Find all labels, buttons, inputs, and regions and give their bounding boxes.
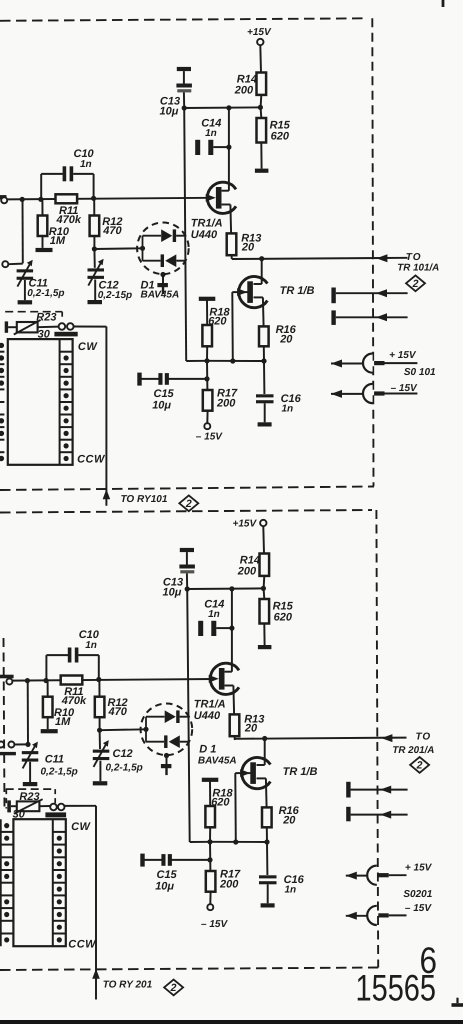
wire: TR1/B drain down (module 2) [264, 739, 266, 766]
svg-text:620: 620 [271, 130, 290, 142]
interconnect diamond 2 (to TR201/A) (module 2) [410, 757, 429, 773]
node: C13 / gate line junction (module 1) [182, 105, 187, 110]
wire: C15 right lead (module 1) [168, 378, 207, 380]
arrowhead: contact 2 (module 1) [376, 313, 387, 321]
trimmer capacitor C12 (module 1) [88, 268, 105, 271]
wire: R12 top lead (module 2) [98, 681, 100, 697]
wire: TR1/A source lead (module 1) [222, 204, 231, 206]
wire: R23 right lead (module 2) [39, 805, 50, 807]
wire: drain line down (module 1) [228, 108, 230, 191]
wire: D1 centre tap down (module 2) [166, 756, 168, 765]
wire: R13 bottom lead (module 2) [234, 736, 236, 740]
wire: R10 bottom lead (module 1) [42, 236, 44, 248]
resistor R12 (module 2) [95, 697, 105, 718]
preset resistor R23 body (module 1) [17, 322, 38, 332]
wire: R18 top lead (module 2) [209, 782, 211, 807]
terminal: input connection bar (module 1) [0, 195, 7, 199]
wire: contact 2 line (module 2) [351, 814, 408, 816]
svg-text:R23: R23 [36, 312, 56, 324]
wire: TR1/B gate lead (module 1) [232, 291, 247, 293]
wire: R14 to node (module 1) [260, 95, 263, 108]
svg-text:200: 200 [237, 565, 257, 577]
wire: C13 to node (module 1) [183, 92, 185, 108]
svg-text:– 15V: – 15V [196, 431, 223, 442]
svg-text:620: 620 [211, 797, 230, 809]
capacitor C10 plates (module 2) [68, 648, 72, 663]
wire: +15V pin line (module 2) [389, 874, 407, 876]
wire: C15 left lead (module 2) [144, 859, 162, 861]
node: C11 branch on gate bus (module 2) [25, 678, 30, 683]
ground below R10 (module 2) [41, 729, 58, 733]
node: D1 left junction (module 1) [140, 246, 145, 251]
wire: R16 node down to C16 (module 2) [266, 842, 268, 875]
arrowhead: -15V plug (module 2) [346, 912, 357, 920]
wire: +15V to R14 (module 1) [259, 45, 262, 72]
svg-text:TO RY101: TO RY101 [121, 494, 168, 505]
terminal: C11 tap circle (module 1) [2, 261, 8, 267]
svg-text:200: 200 [216, 397, 236, 409]
wire: D1 bottom anode lead (module 1) [176, 260, 186, 262]
transistor TR1/B JFET (module 2) [242, 757, 271, 788]
capacitor C16 plates (module 1) [256, 394, 274, 397]
ground below D1 (module 1) [157, 283, 168, 287]
diode D1 lower half (points left) (module 2) [164, 735, 167, 748]
terminal: R23 wiper circle B (module 2) [58, 804, 65, 811]
svg-text:1n: 1n [85, 640, 97, 651]
connector socket +15V (module 1) [363, 354, 373, 373]
wire: C13-D1 vertical line (module 2) [187, 589, 190, 842]
resistor R17 (module 1) [203, 390, 213, 411]
ground below R15 (module 2) [258, 645, 272, 649]
node: D1 centre tap (module 2) [164, 753, 169, 758]
dashed border: module 1 right edge [372, 18, 373, 486]
node: C10 left / R10 (module 2) [43, 678, 48, 683]
node: C14 to drain line (module 1) [226, 145, 231, 150]
capacitor C13 top plate (module 2) [180, 548, 194, 552]
diode D1 dashed envelope circle (module 1) [137, 223, 189, 275]
wire: R23 left lead (module 2) [11, 805, 17, 807]
diode D1 lower half (points left) (module 1) [161, 254, 164, 267]
wire: output line to TO TR201/A (module 2) [235, 738, 407, 739]
wire: R13 bottom lead (module 1) [231, 255, 233, 259]
terminal: input connection bar (module 2) [0, 675, 14, 679]
node: TR1/A drain tap (module 1) [226, 105, 231, 110]
trimmer capacitor C12 (module 2) [93, 750, 110, 753]
node: R14 / R15 junction (module 2) [261, 586, 266, 591]
wire: TR1/B source down to R16 (module 1) [262, 297, 265, 326]
wire: C10 left lead across (module 1) [41, 173, 63, 175]
svg-text:20: 20 [241, 241, 255, 253]
node: D1 centre tap (module 1) [160, 272, 165, 277]
wire: TR1/A drain lead (module 1) [222, 190, 229, 192]
svg-text:0,2-1,5p: 0,2-1,5p [27, 288, 64, 299]
node: R12 top on gate bus (module 2) [96, 677, 101, 682]
svg-text:+ 15V: + 15V [389, 350, 417, 361]
wire: -15V pin line (module 2) [389, 914, 407, 916]
wire: C11 tap lead (module 2) [14, 743, 28, 745]
node: C15 / R17 tap (module 1) [204, 376, 209, 381]
svg-text:CCW: CCW [68, 939, 97, 951]
svg-text:S0201: S0201 [403, 889, 432, 900]
svg-text:2: 2 [416, 760, 423, 772]
pin pads left column (module 2) [0, 819, 2, 946]
wire: C12 to ground (module 2) [99, 761, 101, 782]
wire: TR1/A source lead (module 2) [225, 685, 234, 687]
capacitor C14 plates (module 2) [198, 621, 203, 636]
terminal: R23 wiper circle A (module 1) [59, 323, 66, 330]
arrowhead: contact 2 (module 2) [380, 811, 391, 819]
node: TR1/B gate tap (module 2) [233, 839, 238, 844]
svg-text:1M: 1M [50, 235, 66, 247]
svg-text:620: 620 [208, 316, 227, 328]
svg-text:20: 20 [279, 333, 293, 345]
svg-text:200: 200 [234, 84, 254, 96]
capacitor C13 second plate (module 1) [176, 84, 192, 88]
wire: R10 top lead (module 1) [41, 199, 43, 215]
partial ground symbol right edge [456, 998, 458, 1004]
arrowhead: +15V plug (module 1) [331, 360, 342, 368]
svg-text:0,2-1,5p: 0,2-1,5p [41, 767, 78, 778]
terminal: R23 wiper circle B (module 1) [67, 323, 74, 330]
svg-text:470: 470 [108, 706, 128, 718]
wire: C10 left lead up (module 2) [45, 655, 47, 681]
wire: R16 node down to C16 (module 1) [263, 361, 265, 394]
node: TR1/B drain tap on output line (module 1) [259, 256, 264, 261]
svg-text:1n: 1n [205, 128, 217, 139]
resistor R16 (module 1) [259, 326, 269, 346]
wire: feedback node line (module 2) [210, 841, 267, 843]
wire: wiper to RY line across (module 1) [74, 326, 107, 328]
terminal: +15V circle (module 1) [257, 39, 263, 45]
resistor R14 (module 2) [260, 554, 270, 576]
arrowhead: output to TR201/A (module 2) [381, 734, 392, 742]
svg-text:C11: C11 [45, 753, 64, 765]
wire: C11 branch down (module 1) [22, 199, 24, 263]
wire: +15V plug line (module 2) [346, 875, 367, 877]
dashed border: module 2 right edge [376, 510, 378, 968]
node: R16 tap (module 1) [261, 358, 266, 363]
dashed outline around R23 right (module 2) [54, 789, 56, 804]
wire: C10 right lead down (module 2) [98, 655, 100, 680]
svg-text:S0 101: S0 101 [404, 367, 436, 378]
node: TR1/B gate tap (module 1) [230, 358, 235, 363]
wire: C14 right lead (module 2) [216, 627, 232, 629]
node: C11 branch on gate bus (module 1) [20, 197, 25, 202]
resistor R13 (module 2) [230, 714, 240, 736]
arrowhead: output to TR101/A (module 1) [376, 254, 387, 262]
capacitor C14 plates (module 1) [195, 140, 200, 155]
wire: C12 branch down (module 2) [99, 730, 101, 749]
wire: TR1/B source lead (module 1) [254, 296, 263, 298]
svg-text:620: 620 [274, 611, 293, 623]
wire: +15V pin line (module 1) [385, 362, 418, 364]
node: TR1/B drain tap on output line (module 2) [262, 736, 267, 741]
terminal: input circle (module 1) [1, 197, 7, 203]
connector pin -15V (module 1) [374, 391, 384, 395]
wire: TR1/A source down to R13 (module 2) [232, 686, 235, 715]
connector pin +15V (module 2) [378, 873, 388, 877]
svg-text:D 1: D 1 [199, 744, 216, 756]
wire: R12 bottom lead (module 2) [99, 717, 101, 730]
wire: C13-D1 vertical line (module 1) [184, 108, 186, 361]
wire: D1 top cathode lead (module 2) [180, 716, 190, 718]
wire: R14 to node (module 2) [263, 576, 266, 589]
wire: -15V pin line (module 1) [385, 393, 418, 395]
svg-text:0,2-15p: 0,2-15p [98, 290, 132, 301]
wire: C11 tap lead (module 1) [8, 263, 22, 266]
wire: TR1/A drain lead (module 2) [225, 671, 232, 673]
svg-text:CCW: CCW [77, 453, 106, 465]
connector pin -15V (module 2) [378, 913, 388, 917]
node: R18/R17 tap (module 1) [204, 358, 209, 363]
pin pads right column (module 2) [52, 819, 54, 946]
capacitor C13 top plate (module 1) [177, 67, 191, 71]
resistor R12 (module 1) [90, 216, 100, 237]
contact pin bar 2 (module 2) [346, 807, 350, 822]
capacitor C13 third plate (module 2) [180, 570, 194, 573]
svg-text:1n: 1n [285, 885, 297, 896]
capacitor C13 second plate (module 2) [179, 565, 195, 569]
wire: R10 bottom lead (module 2) [47, 717, 49, 729]
arrowhead: to RY 201 (module 2) [92, 969, 100, 979]
wire: D1 top cathode lead (module 1) [176, 235, 186, 237]
wire: D1 top anode lead (module 2) [146, 716, 165, 718]
wire: top rail C13 to R14 (module 2) [187, 587, 263, 590]
capacitor C15 plates (module 2) [161, 854, 165, 866]
dashed border: page frame tick top right [442, 0, 445, 7]
svg-text:BAV45A: BAV45A [141, 290, 180, 301]
wire: wiper to RY line across (module 2) [65, 805, 97, 807]
capacitor C10 plates (module 1) [63, 166, 67, 181]
svg-text:1n: 1n [80, 159, 92, 170]
interconnect diamond 2 (to RY201) (module 2) [164, 980, 183, 996]
wire: contact 1 line (module 2) [351, 789, 408, 791]
wire: D1 ground stub (module 1) [162, 287, 164, 294]
ground below C12 (module 1) [88, 300, 103, 304]
svg-text:CW: CW [78, 341, 98, 353]
wire: C11 to ground (module 2) [29, 762, 31, 782]
node: R12 / C12 / D1 junction (module 2) [97, 728, 102, 733]
wire: C13 internal stem (module 1) [183, 71, 185, 83]
wire: D1 centre tap down (module 1) [162, 275, 164, 284]
node: R12 / C12 / D1 junction (module 1) [92, 246, 97, 251]
wire: TR1/B gate down (module 2) [234, 773, 237, 842]
node: TR1/A drain tap (module 2) [229, 586, 234, 591]
pin pads left column (module 1) [0, 351, 4, 353]
interconnect diamond 2 (to TR101/A) (module 1) [406, 275, 425, 291]
wire: R15 to ground (module 1) [260, 143, 262, 169]
wire: node line down to R17 (module 1) [206, 361, 208, 390]
wire: -15V plug line (module 1) [331, 393, 363, 395]
svg-text:C15: C15 [154, 388, 175, 400]
svg-text:C15: C15 [157, 869, 178, 881]
contact pin bar 2 (module 1) [331, 310, 335, 325]
svg-text:10μ: 10μ [163, 586, 182, 598]
wire: C10 right lead across (module 2) [78, 654, 98, 656]
scan edge black band bottom [0, 1020, 463, 1024]
dashed border: module 2 top edge [0, 510, 372, 513]
ground above R18 (module 1) [199, 297, 216, 301]
resistor R10 (module 1) [38, 216, 48, 237]
svg-text:– 15V: – 15V [405, 903, 432, 914]
wire: C11 branch down (module 2) [27, 681, 29, 745]
svg-text:1n: 1n [282, 404, 294, 415]
wire: top rail C13 to R14 (module 1) [184, 106, 260, 109]
svg-text:470: 470 [102, 225, 122, 237]
resistor R10 (module 2) [43, 697, 53, 718]
wire: line down to RY 201 (module 2) [95, 806, 97, 1000]
arrowhead: contact 1 (module 1) [376, 289, 387, 297]
svg-text:20: 20 [282, 814, 296, 826]
svg-text:C12: C12 [113, 748, 133, 760]
wire: +15V to R14 (module 2) [262, 526, 265, 553]
wire: R12 bottom lead (module 1) [93, 236, 95, 249]
wiper common bar (module 1) [54, 332, 77, 337]
resistor R14 (module 1) [257, 73, 267, 95]
transistor TR1/B JFET (module 1) [239, 277, 268, 308]
terminal: C11 tap circle (module 2) [8, 742, 14, 748]
svg-text:10μ: 10μ [152, 399, 171, 411]
svg-text:TR 101/A: TR 101/A [397, 263, 439, 274]
wire: R12 top lead (module 1) [93, 199, 95, 215]
terminal: C11 tap circle outer (module 2) [0, 742, 4, 748]
ground below C16 (module 1) [258, 422, 272, 426]
interconnect diamond 2 (to RY101) (module 1) [179, 495, 198, 511]
wire: junction to D1 left (module 1) [94, 247, 142, 250]
contact pin bar 1 (module 2) [346, 782, 350, 798]
wire: D1 ground stub (module 2) [165, 768, 167, 775]
arrowhead: to RY 101 (module 1) [103, 489, 111, 499]
svg-text:TO: TO [406, 252, 422, 263]
wire: output line to TO TR101/A (module 1) [232, 258, 408, 259]
svg-text:200: 200 [219, 878, 239, 890]
node: R12 top on gate bus (module 1) [91, 196, 96, 201]
terminal: -15V circle (module 1) [204, 423, 210, 429]
svg-text:TO RY 201: TO RY 201 [103, 980, 153, 991]
wire: R16 bottom to node line (module 1) [263, 346, 265, 361]
wire: R18 bottom lead (module 1) [206, 346, 208, 361]
wire: C10 left lead up (module 1) [40, 174, 42, 200]
wire: gate bus to TR1/A gate (module 2) [12, 679, 214, 681]
svg-text:CW: CW [71, 821, 91, 833]
wire: TR1/B drain lead (module 2) [257, 764, 265, 766]
svg-text:470k: 470k [61, 695, 87, 707]
wire: +15V plug line (module 1) [331, 363, 363, 365]
svg-text:10μ: 10μ [160, 105, 179, 117]
capacitor C16 plates (module 2) [259, 875, 277, 878]
dashed outline around R23 right (module 1) [61, 312, 63, 319]
wire: C13 internal stem (module 2) [186, 552, 188, 564]
wire: C12 to ground (module 1) [94, 280, 96, 301]
ground below R15 (module 1) [255, 169, 269, 173]
resistor R15 (module 1) [257, 118, 267, 143]
terminal: R23 wiper circle A (module 2) [50, 804, 57, 811]
terminal: C15 left bar (module 2) [140, 854, 144, 867]
svg-text:TR 201/A: TR 201/A [392, 745, 434, 756]
terminal: +15V circle (module 2) [260, 520, 266, 526]
terminal: R23 left bar (module 2) [7, 800, 11, 812]
node: R16 tap (module 2) [264, 839, 269, 844]
svg-text:BAV45A: BAV45A [198, 755, 237, 766]
svg-text:TR 1/B: TR 1/B [283, 766, 318, 778]
node: C10 left / R10 (module 1) [38, 197, 43, 202]
svg-text:– 15V: – 15V [201, 919, 228, 930]
capacitor C15 plates (module 1) [158, 373, 162, 385]
node: C15 / R17 tap (module 2) [207, 857, 212, 862]
wire: R17 bottom lead (module 2) [209, 892, 211, 905]
terminal: -15V circle (module 2) [207, 904, 213, 910]
svg-text:0,2-1,5p: 0,2-1,5p [106, 763, 143, 774]
diode D1 upper half (points right) (module 1) [161, 229, 172, 242]
wire: C16 to ground (module 1) [264, 403, 266, 422]
node: C11 tap junction (module 2) [25, 742, 30, 747]
svg-text:U440: U440 [191, 229, 218, 241]
svg-text:U440: U440 [194, 710, 221, 722]
svg-text:2: 2 [170, 982, 177, 994]
wire: D1 bottom cathode lead (module 1) [143, 260, 161, 262]
wire: C13 to node (module 2) [186, 573, 188, 589]
capacitor C13 third plate (module 1) [177, 89, 191, 92]
svg-text:20: 20 [244, 722, 258, 734]
wire: node to R15 (module 2) [263, 588, 266, 599]
node: D1 left junction (module 2) [143, 727, 148, 732]
wire: elbow to R18/R17 node (module 1) [186, 360, 207, 362]
wire: C10 right lead down (module 1) [93, 174, 95, 199]
wire: node line down to R17 (module 2) [209, 842, 211, 871]
connector socket +15V (module 2) [367, 866, 377, 885]
arrowhead: +15V plug (module 2) [346, 872, 357, 880]
wire: R10 top lead (module 2) [47, 681, 49, 697]
wire: feedback node line (module 1) [207, 360, 264, 362]
wire: gate bus to TR1/A gate (module 1) [7, 198, 211, 200]
transistor TR1/A U440 JFET (module 1) [207, 182, 236, 213]
pin pad dots left column (module 2) [4, 823, 9, 828]
ground below C16 (module 2) [261, 903, 275, 907]
pin pad dots right column (module 2) [57, 836, 62, 841]
wire: D1 top anode lead (module 1) [143, 235, 162, 237]
wire: line down to RY 101 (module 1) [105, 327, 107, 506]
wire: R23 right lead (module 1) [38, 326, 59, 329]
ground below C11 (module 1) [18, 300, 32, 304]
resistor R18 (module 2) [205, 806, 215, 827]
resistor R17 (module 2) [206, 871, 216, 892]
wire: C15 left lead (module 1) [141, 378, 159, 380]
svg-text:1n: 1n [208, 609, 220, 620]
svg-text:470k: 470k [56, 214, 82, 226]
connector pin +15V (module 1) [374, 361, 384, 365]
wire: C11 to ground (module 1) [24, 280, 26, 300]
wire: TR1/B gate down (module 1) [231, 292, 234, 361]
node: R18/R17 tap (module 2) [207, 839, 212, 844]
resistor R16 (module 2) [262, 807, 272, 827]
svg-text:+ 15V: + 15V [405, 863, 433, 874]
svg-text:10μ: 10μ [155, 880, 174, 892]
svg-text:1M: 1M [55, 716, 71, 728]
pin pad dots left column (module 1) [0, 343, 4, 348]
wire: TR1/B drain down (module 1) [261, 259, 263, 284]
node: R14 / R15 junction (module 1) [258, 105, 263, 110]
resistor R13 (module 1) [227, 233, 237, 255]
wire: TR1/B gate lead (module 2) [235, 772, 250, 774]
wire: C14 right lead (module 1) [213, 146, 229, 148]
dashed border: module 1 top edge [0, 18, 368, 21]
svg-text:TR1/A: TR1/A [194, 698, 226, 710]
wire: TR1/B source lead (module 2) [257, 777, 266, 779]
resistor R11 (module 2) [61, 676, 83, 685]
wire: drain line down (module 2) [231, 589, 233, 672]
arrowhead: contact 1 (module 2) [380, 786, 391, 794]
terminal: spare bar left edge (module 2) [0, 752, 16, 755]
